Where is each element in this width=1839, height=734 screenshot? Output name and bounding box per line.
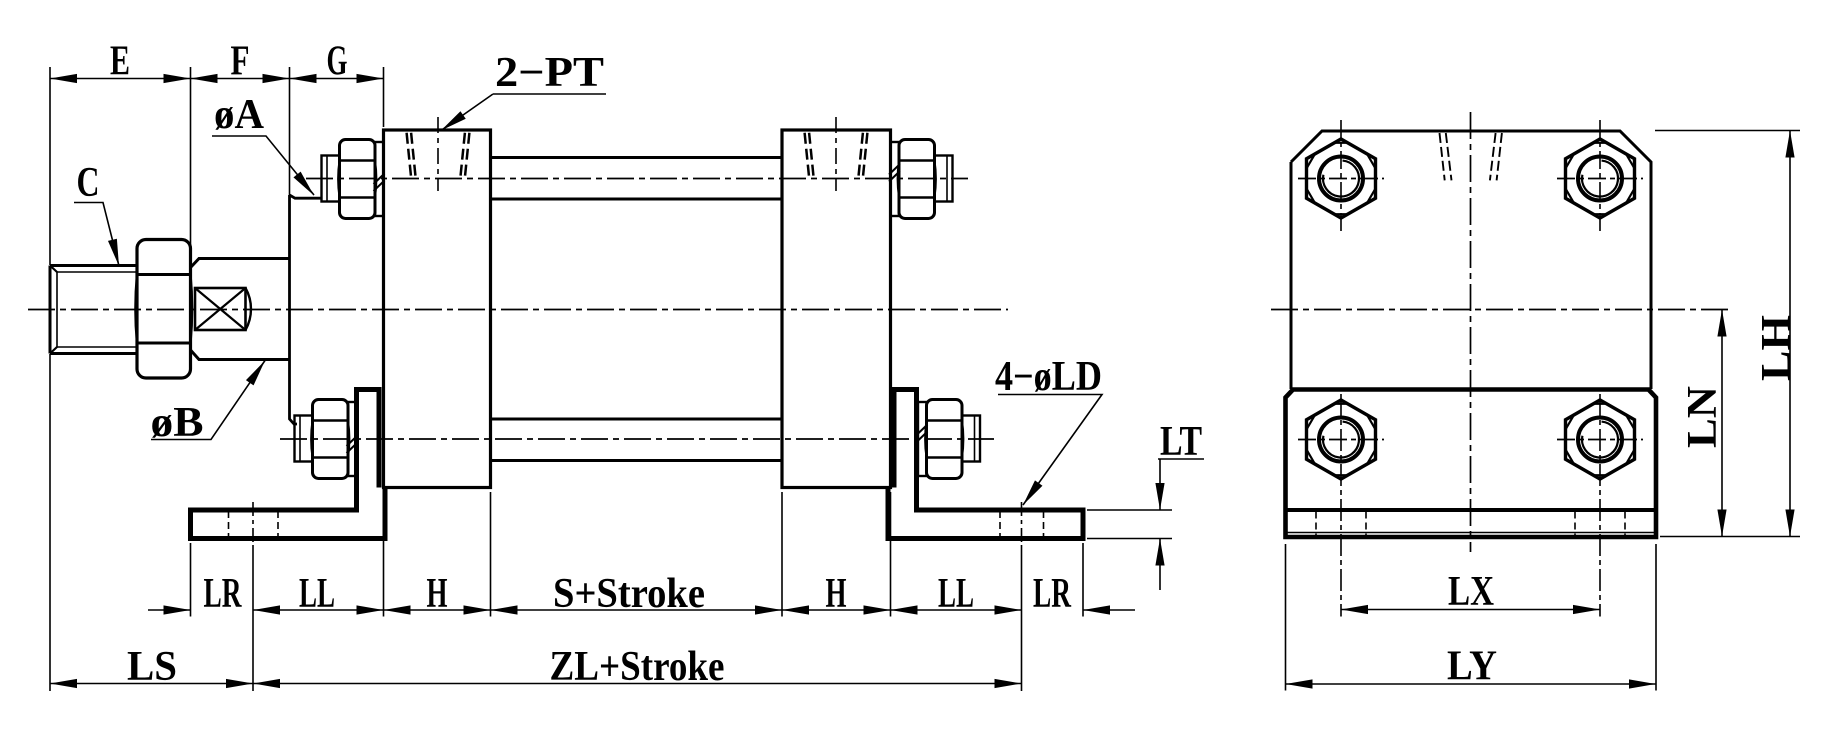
- arrow H-right a: [782, 605, 809, 614]
- svg-text:ZL+Stroke: ZL+Stroke: [550, 644, 725, 690]
- centerline upper tie rod: [306, 178, 968, 180]
- ext lines top row: [49, 67, 51, 691]
- svg-text:LL: LL: [938, 571, 974, 617]
- arrow leader C: [108, 239, 124, 267]
- svg-text:LL: LL: [299, 571, 335, 617]
- wrench flats square: [195, 288, 251, 330]
- end view tie rod nut upper-left: [1298, 139, 1384, 218]
- arrow H-right b: [864, 605, 891, 614]
- arrow LL-left b: [357, 605, 384, 614]
- svg-text:2−PT: 2−PT: [495, 50, 604, 96]
- svg-text:LX: LX: [1448, 569, 1494, 615]
- arrow S right: [755, 605, 782, 614]
- dim line bottom row: [148, 609, 1135, 611]
- end view nut vertical centerlines lower / LX ext: [1341, 394, 1600, 617]
- end cap outline: [1291, 131, 1651, 389]
- rear port 2-PT: [805, 117, 868, 191]
- arrow ZL right: [995, 679, 1022, 688]
- svg-text:LY: LY: [1447, 644, 1497, 690]
- foot bracket left: [191, 390, 386, 539]
- foot bracket right: [888, 390, 1083, 539]
- leader øA: [212, 136, 314, 195]
- arrowheads: [50, 74, 1795, 689]
- leader øB: [151, 361, 265, 440]
- end view nut vertical centerlines upper: [1341, 120, 1600, 233]
- arrow LH bottom: [1785, 510, 1794, 537]
- arrow LT top: [1155, 483, 1164, 510]
- svg-text:H: H: [427, 571, 448, 617]
- LH ext lines: [1655, 131, 1800, 537]
- ext lines bottom row: [190, 543, 192, 617]
- tie rod nut front-lower: [295, 400, 358, 479]
- foot bracket right hole (dashed): [1000, 511, 1044, 537]
- tie rod lower: [491, 459, 783, 462]
- dim line F,G share: [191, 78, 384, 80]
- gland boss plate (øA): [290, 195, 321, 424]
- tie rod nut front-upper: [322, 140, 385, 219]
- leader 2-PT: [441, 94, 606, 131]
- foot bracket left hole centerline: [252, 502, 254, 545]
- arrow F left: [191, 74, 218, 83]
- arrow LT bottom: [1155, 539, 1164, 566]
- svg-text:C: C: [77, 160, 100, 206]
- arrow LR-right outside: [1083, 605, 1110, 614]
- svg-text:øA: øA: [214, 92, 265, 138]
- LN dim line: [1721, 310, 1723, 537]
- arrow LS right: [226, 679, 253, 688]
- piston rod boss (øB): [191, 259, 290, 360]
- arrow ZL left: [253, 679, 280, 688]
- arrow G right: [357, 74, 384, 83]
- foot bracket left hole (dashed): [229, 511, 279, 537]
- arrow H-left a: [384, 605, 411, 614]
- leader C: [74, 203, 119, 267]
- arrow LY right: [1629, 679, 1656, 688]
- rod thread end C: [50, 266, 136, 354]
- svg-text:S+Stroke: S+Stroke: [553, 571, 705, 617]
- dim line LS / ZL: [50, 683, 1022, 685]
- end view tie rod nut upper-right: [1557, 139, 1643, 218]
- leader 4-øLD: [998, 395, 1102, 506]
- arrow LS left: [50, 679, 77, 688]
- LT ext lines: [1087, 510, 1172, 539]
- tie rod nut rear-upper: [889, 140, 953, 219]
- LT leader/arrow lines: [1159, 459, 1161, 590]
- tie rod upper: [491, 156, 783, 159]
- arrow E left: [50, 74, 77, 83]
- cylinder tube: [491, 199, 783, 419]
- arrow leader øA: [293, 172, 317, 199]
- front port 2-PT: [407, 117, 470, 191]
- foot bracket end view foot top edge: [1286, 508, 1657, 512]
- svg-text:LR: LR: [204, 571, 242, 617]
- arrow LY left: [1286, 679, 1313, 688]
- arrow LN top: [1717, 310, 1726, 337]
- end view tie rod nut lower-left: [1298, 400, 1384, 479]
- arrow LN bottom: [1717, 510, 1726, 537]
- arrow S left: [491, 605, 518, 614]
- arrow G left: [290, 74, 317, 83]
- arrow H-left b: [464, 605, 491, 614]
- arrow LR-left outside: [164, 605, 191, 614]
- svg-text:E: E: [110, 39, 130, 85]
- centerline main axis: [28, 309, 1008, 311]
- foot bracket right hole centerline: [1021, 502, 1023, 545]
- LY dim line: [1286, 683, 1657, 685]
- arrow LL-right a: [891, 605, 918, 614]
- arrow leader 2-PT: [438, 111, 465, 134]
- arrow LL-right b: [995, 605, 1022, 614]
- svg-text:F: F: [231, 39, 250, 85]
- svg-text:LH: LH: [1754, 315, 1800, 381]
- end view horizontal centerline: [1271, 309, 1731, 311]
- svg-text:øB: øB: [151, 400, 204, 446]
- end view vertical centerline: [1470, 112, 1472, 552]
- svg-text:LN: LN: [1680, 386, 1726, 448]
- svg-text:LR: LR: [1033, 571, 1071, 617]
- svg-text:H: H: [826, 571, 847, 617]
- rod hex nut: [135, 240, 192, 379]
- arrow LX left: [1341, 605, 1368, 614]
- dim line E: [50, 78, 191, 80]
- LH dim line: [1789, 131, 1791, 537]
- LT underline: [1158, 458, 1204, 460]
- end port hidden lines: [1440, 133, 1502, 180]
- svg-text:LS: LS: [127, 644, 177, 690]
- foot bracket end view plate: [1286, 390, 1657, 538]
- arrow F right: [263, 74, 290, 83]
- arrow LX right: [1573, 605, 1600, 614]
- LX dim line: [1341, 609, 1600, 611]
- front cover: [384, 130, 491, 488]
- foot bracket end view holes: [1316, 512, 1625, 536]
- centerline lower tie rod: [280, 438, 994, 440]
- arrow LH top: [1785, 131, 1794, 158]
- arrow E right: [164, 74, 191, 83]
- foot bracket end view foot inner line: [1287, 532, 1654, 534]
- arrow leader øB: [246, 358, 269, 385]
- tie rod nut rear-lower: [917, 400, 981, 479]
- rear cover: [782, 130, 891, 488]
- svg-text:4−øLD: 4−øLD: [995, 354, 1102, 400]
- arrow LL-left a: [253, 605, 280, 614]
- LY ext lines: [1286, 544, 1657, 691]
- end view tie rod nut lower-right: [1557, 400, 1643, 479]
- svg-text:G: G: [327, 39, 348, 85]
- arrow leader 4-øLD: [1019, 480, 1042, 507]
- svg-text:LT: LT: [1160, 419, 1202, 465]
